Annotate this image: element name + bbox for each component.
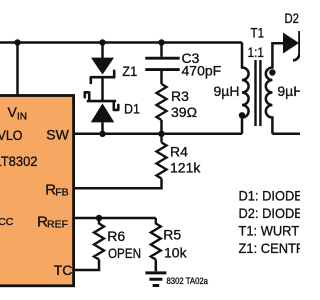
wire R6 to TC pin bbox=[75, 260, 99, 271]
wire rail to Z1 bbox=[101, 43, 104, 59]
wire SW line bbox=[75, 133, 242, 136]
transformer T1 core bbox=[256, 60, 261, 126]
junction node RREF/R6 bbox=[96, 215, 102, 221]
junction node SW/D1 bbox=[99, 131, 105, 137]
wire VIN drop to pin bbox=[16, 43, 19, 96]
svg-text:470pF: 470pF bbox=[182, 63, 222, 79]
svg-text:T1: WURTH 750315371: T1: WURTH 750315371 bbox=[239, 222, 301, 238]
svg-text:8302 TA02a: 8302 TA02a bbox=[167, 276, 209, 286]
svg-text:D1: DIODES INC. SBR1U150SA: D1: DIODES INC. SBR1U150SA bbox=[239, 188, 301, 204]
svg-text:1:1: 1:1 bbox=[248, 44, 265, 60]
diode D2 schottky bbox=[283, 33, 299, 54]
svg-text:Z1: CENTRAL SEMI CMHZ5248B: Z1: CENTRAL SEMI CMHZ5248B bbox=[239, 240, 301, 256]
transformer T1 secondary winding bbox=[266, 43, 283, 134]
svg-text:9µH: 9µH bbox=[277, 83, 300, 99]
svg-text:9µH: 9µH bbox=[214, 83, 240, 99]
svg-text:D2: DIODES INC. PD3S160: D2: DIODES INC. PD3S160 bbox=[239, 205, 301, 221]
transformer T1 primary winding bbox=[242, 43, 249, 134]
svg-text:T1: T1 bbox=[251, 25, 265, 41]
svg-text:REF: REF bbox=[47, 218, 68, 230]
svg-text:V: V bbox=[8, 104, 18, 120]
resistor R4 bbox=[157, 134, 167, 179]
wire secondary bottom out bbox=[272, 133, 300, 136]
wire RREF pin bbox=[75, 217, 156, 220]
junction node rail/Z1 bbox=[99, 39, 105, 45]
zener Z1 bbox=[91, 58, 114, 75]
svg-text:IN: IN bbox=[17, 111, 27, 122]
IC U1 LT8302 body bbox=[0, 96, 74, 286]
svg-text:CC: CC bbox=[0, 216, 14, 228]
wire C3 to R3 bbox=[160, 71, 163, 84]
svg-text:39Ω: 39Ω bbox=[171, 104, 197, 120]
capacitor C3 bbox=[145, 58, 179, 69]
junction node rail/C3 bbox=[158, 39, 164, 45]
svg-text:R4: R4 bbox=[170, 144, 188, 160]
phase dot primary bbox=[239, 112, 245, 118]
svg-text:UVLO: UVLO bbox=[0, 127, 23, 143]
svg-text:D2: D2 bbox=[285, 10, 300, 26]
wire rail to C3 bbox=[160, 43, 163, 57]
resistor R3 bbox=[157, 84, 167, 120]
phase dot secondary bbox=[269, 69, 275, 75]
svg-text:R3: R3 bbox=[171, 88, 189, 104]
svg-text:FB: FB bbox=[55, 186, 68, 198]
resistor R6 bbox=[94, 218, 104, 260]
svg-text:R5: R5 bbox=[163, 226, 181, 242]
svg-text:TC: TC bbox=[54, 262, 73, 278]
junction node SW/R3 bbox=[158, 131, 164, 137]
svg-text:OPEN: OPEN bbox=[108, 245, 141, 261]
svg-text:SW: SW bbox=[46, 126, 69, 142]
wire D1 to SW line bbox=[101, 122, 104, 133]
wire Z1 to D1 bbox=[101, 79, 104, 101]
svg-text:10k: 10k bbox=[164, 244, 188, 260]
wire R4 to RFB pin bbox=[75, 179, 162, 189]
ground bbox=[145, 273, 166, 286]
svg-text:121k: 121k bbox=[170, 160, 201, 176]
wire VIN top rail bbox=[0, 41, 242, 44]
svg-text:R6: R6 bbox=[107, 228, 125, 244]
wire R5 to ground bbox=[155, 260, 158, 272]
svg-text:Z1: Z1 bbox=[122, 63, 137, 79]
diode D1 schottky bbox=[85, 92, 119, 110]
svg-text:LT8302: LT8302 bbox=[0, 153, 38, 169]
resistor R5 bbox=[151, 218, 161, 260]
svg-text:D1: D1 bbox=[124, 101, 140, 117]
wire R3 to SW line bbox=[160, 120, 163, 134]
junction node rail/VIN bbox=[14, 39, 20, 45]
